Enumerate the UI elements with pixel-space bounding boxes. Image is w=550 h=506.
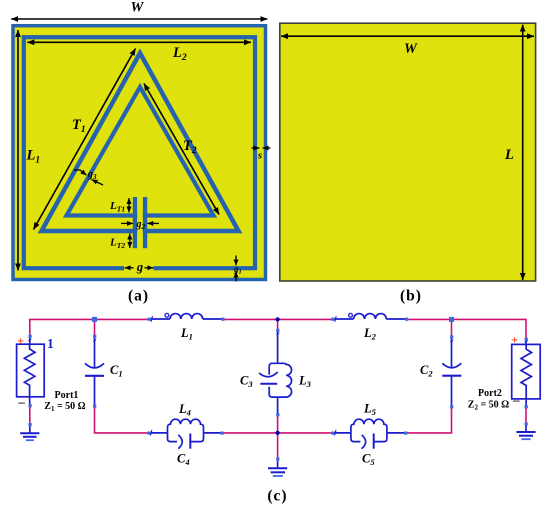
dimension arrow L2 [27, 42, 251, 63]
ground plane (b) [280, 23, 536, 281]
tank C3 L3 [240, 330, 312, 414]
svg-text:–: – [512, 392, 520, 407]
wire port1 bottom [29, 406, 31, 425]
svg-text:1: 1 [47, 336, 54, 351]
dimension arrow W (a) [11, 0, 267, 19]
inductor L1 [149, 313, 223, 341]
svg-text:Port2: Port2 [478, 388, 502, 399]
ground center [268, 459, 287, 476]
square ring resonator L2 [24, 37, 255, 272]
patch substrate (a) [13, 26, 266, 280]
wire C1 top stub [94, 319, 96, 336]
svg-text:L5: L5 [363, 402, 377, 418]
gap g2 erase between feed stubs [137, 210, 143, 236]
wire top bus left segment [30, 319, 149, 337]
caption (c) [267, 488, 287, 505]
wire C1 bottom to bottom bus [95, 406, 149, 433]
dimension LT2 [109, 234, 130, 251]
node square C1 tap [92, 317, 97, 322]
svg-text:W: W [131, 0, 145, 16]
capacitor C2 [420, 337, 461, 407]
svg-text:L2: L2 [363, 326, 377, 342]
tank L4 C4 [149, 402, 222, 467]
dimension LT1 [109, 198, 129, 214]
tank L5 C5 [333, 402, 406, 468]
wire C2 top stub [451, 319, 453, 336]
wire C3 bottom stub [277, 415, 279, 433]
capacitor C1 [85, 336, 123, 406]
svg-text:W: W [404, 41, 418, 57]
node junction top C3 [276, 317, 280, 321]
dimension g1 [233, 256, 242, 282]
svg-text:Z2 = 50 Ω: Z2 = 50 Ω [468, 400, 509, 412]
svg-text:C1: C1 [110, 363, 123, 379]
left feed stub [133, 197, 137, 248]
dimension s [252, 148, 271, 162]
inner triangle T2 [67, 87, 214, 216]
dimension g2 [121, 219, 159, 231]
caption (a) [128, 288, 149, 305]
svg-text:(a): (a) [128, 288, 149, 305]
svg-text:L: L [504, 147, 514, 163]
svg-text:–: – [17, 394, 25, 409]
svg-text:s: s [257, 151, 262, 162]
svg-text:C2: C2 [420, 363, 433, 379]
svg-text:(b): (b) [400, 288, 422, 305]
wire bottom bus middle segment [222, 432, 333, 434]
node square C2 tap [449, 317, 454, 322]
svg-text:Port1: Port1 [55, 390, 79, 401]
wire top bus middle segment [223, 318, 333, 320]
svg-text:g: g [136, 260, 143, 274]
svg-text:C3: C3 [240, 374, 253, 390]
right feed stub [143, 197, 147, 248]
inductor L2 [333, 313, 407, 341]
svg-text:Z1 = 50 Ω: Z1 = 50 Ω [44, 401, 85, 413]
svg-text:(c): (c) [267, 488, 287, 505]
svg-text:L1: L1 [180, 326, 193, 342]
dimension arrow T2 [144, 84, 219, 215]
dimension arrow L (b) [504, 25, 523, 280]
svg-text:L4: L4 [178, 402, 191, 418]
svg-text:+: + [511, 333, 518, 347]
outer triangle T1 [42, 53, 239, 231]
caption (b) [400, 288, 422, 305]
svg-text:+: + [17, 333, 24, 347]
port1 text label [44, 390, 85, 413]
wire C3 top stub [277, 319, 279, 330]
dimension arrow W (b) [281, 36, 534, 57]
port P1 term [17, 333, 54, 409]
node junction bottom C3 [276, 431, 280, 435]
dimension g [125, 260, 154, 274]
wire port2 bottom [525, 407, 527, 424]
wire center ground stub [277, 433, 279, 459]
port2 text label [468, 388, 509, 412]
ground port2 [516, 424, 535, 439]
pin markers [29, 318, 528, 461]
dimension arrow T1 [34, 49, 136, 230]
wire bottom bus right segment [406, 407, 452, 433]
pin tick arrows [29, 316, 528, 435]
svg-text:C5: C5 [362, 452, 375, 468]
dimension g3 [74, 169, 103, 185]
port P2 term [511, 333, 540, 407]
dimension arrow L1 [18, 30, 40, 271]
svg-text:L3: L3 [298, 374, 312, 390]
svg-text:C4: C4 [177, 452, 190, 468]
wire top bus right segment [406, 319, 526, 339]
ground port1 [20, 424, 39, 440]
